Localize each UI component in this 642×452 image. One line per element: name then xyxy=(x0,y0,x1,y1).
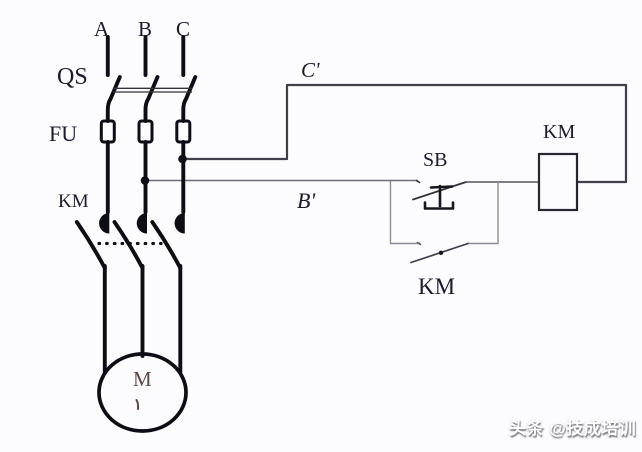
svg-text:FU: FU xyxy=(49,121,77,146)
svg-text:SB: SB xyxy=(423,149,447,171)
svg-text:KM: KM xyxy=(543,121,575,143)
svg-text:C': C' xyxy=(301,58,320,82)
svg-text:KM: KM xyxy=(418,274,455,299)
svg-text:C: C xyxy=(176,17,190,41)
svg-text:M: M xyxy=(133,367,152,391)
svg-text:B: B xyxy=(138,17,152,41)
svg-text:KM: KM xyxy=(58,191,89,212)
svg-text:QS: QS xyxy=(57,64,88,90)
svg-text:B': B' xyxy=(297,188,315,213)
svg-text:A: A xyxy=(94,17,110,41)
